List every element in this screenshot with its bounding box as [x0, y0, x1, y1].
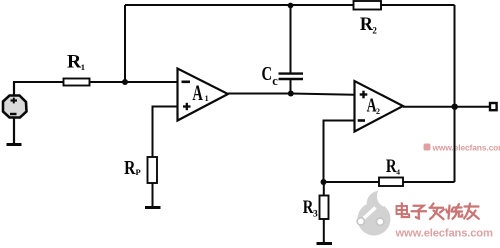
svg-text:3: 3: [313, 210, 318, 220]
resistor RP: [148, 157, 158, 183]
wire RP to ground: [152, 183, 154, 207]
ground (source): [7, 143, 22, 146]
wire R3 to ground: [323, 219, 325, 243]
source VS stem top: [13, 82, 15, 95]
svg-text:A: A: [192, 80, 202, 105]
node output: [452, 104, 458, 110]
wire node B to R3: [323, 182, 325, 196]
svg-text:1: 1: [81, 62, 85, 72]
label R3: [303, 197, 318, 220]
node CC bottom: [288, 91, 294, 97]
wire left vertical to node: [124, 5, 126, 82]
node top (CC / feedback): [288, 3, 294, 9]
node B (R3/R4 junction): [321, 179, 327, 185]
wire input horizontal: [13, 81, 178, 83]
output terminal: [490, 103, 497, 110]
svg-text:1: 1: [205, 94, 209, 103]
resistor R4: [379, 178, 403, 187]
watermark text CN (drawn strokes): [397, 203, 479, 219]
svg-text:www.elecfans.com: www.elecfans.com: [432, 143, 500, 153]
svg-text:4: 4: [396, 168, 400, 177]
label R2: [360, 14, 378, 36]
友: [465, 205, 479, 207]
svg-text:2: 2: [372, 25, 377, 35]
op-amp A1: [178, 69, 229, 121]
node A (R1 / feedback junction): [122, 79, 128, 85]
label A1: [192, 80, 208, 105]
source VS: [3, 96, 27, 118]
resistor R1: [64, 79, 90, 86]
发: [431, 204, 434, 208]
capacitor CC: [279, 5, 304, 94]
resistor R2: [354, 1, 382, 10]
子: [414, 206, 424, 210]
wire A1 noninverting input: [153, 107, 178, 158]
label R4: [386, 157, 400, 177]
resistor R3: [320, 196, 329, 220]
source VS stem bottom: [13, 118, 15, 144]
烧: [449, 206, 450, 219]
label R1: [67, 52, 85, 73]
svg-text:R: R: [124, 157, 136, 179]
label A2: [367, 95, 380, 117]
svg-text:R: R: [360, 14, 373, 35]
svg-text:R: R: [67, 52, 81, 73]
wire right vertical: [454, 5, 456, 182]
wire feedback bottom: [324, 181, 455, 183]
svg-text:c: c: [272, 74, 278, 88]
ground (R3): [317, 242, 333, 245]
op-amp A2: [355, 81, 404, 132]
ground (RP): [145, 206, 161, 209]
svg-text:R: R: [303, 197, 314, 218]
svg-text:P: P: [136, 167, 141, 177]
watermark url small: [424, 143, 500, 153]
电: [397, 206, 408, 214]
wire A2 inverting input: [324, 121, 355, 183]
svg-text:C: C: [262, 64, 273, 85]
svg-text:www.elecfans.com: www.elecfans.com: [395, 228, 493, 240]
label RP: [124, 157, 141, 179]
watermark logo: [357, 191, 390, 236]
wire A1 output: [228, 94, 355, 95]
label CC: [262, 64, 279, 88]
svg-text:2: 2: [376, 107, 380, 116]
wire A2 output: [403, 106, 490, 108]
wire top feedback: [125, 4, 455, 6]
